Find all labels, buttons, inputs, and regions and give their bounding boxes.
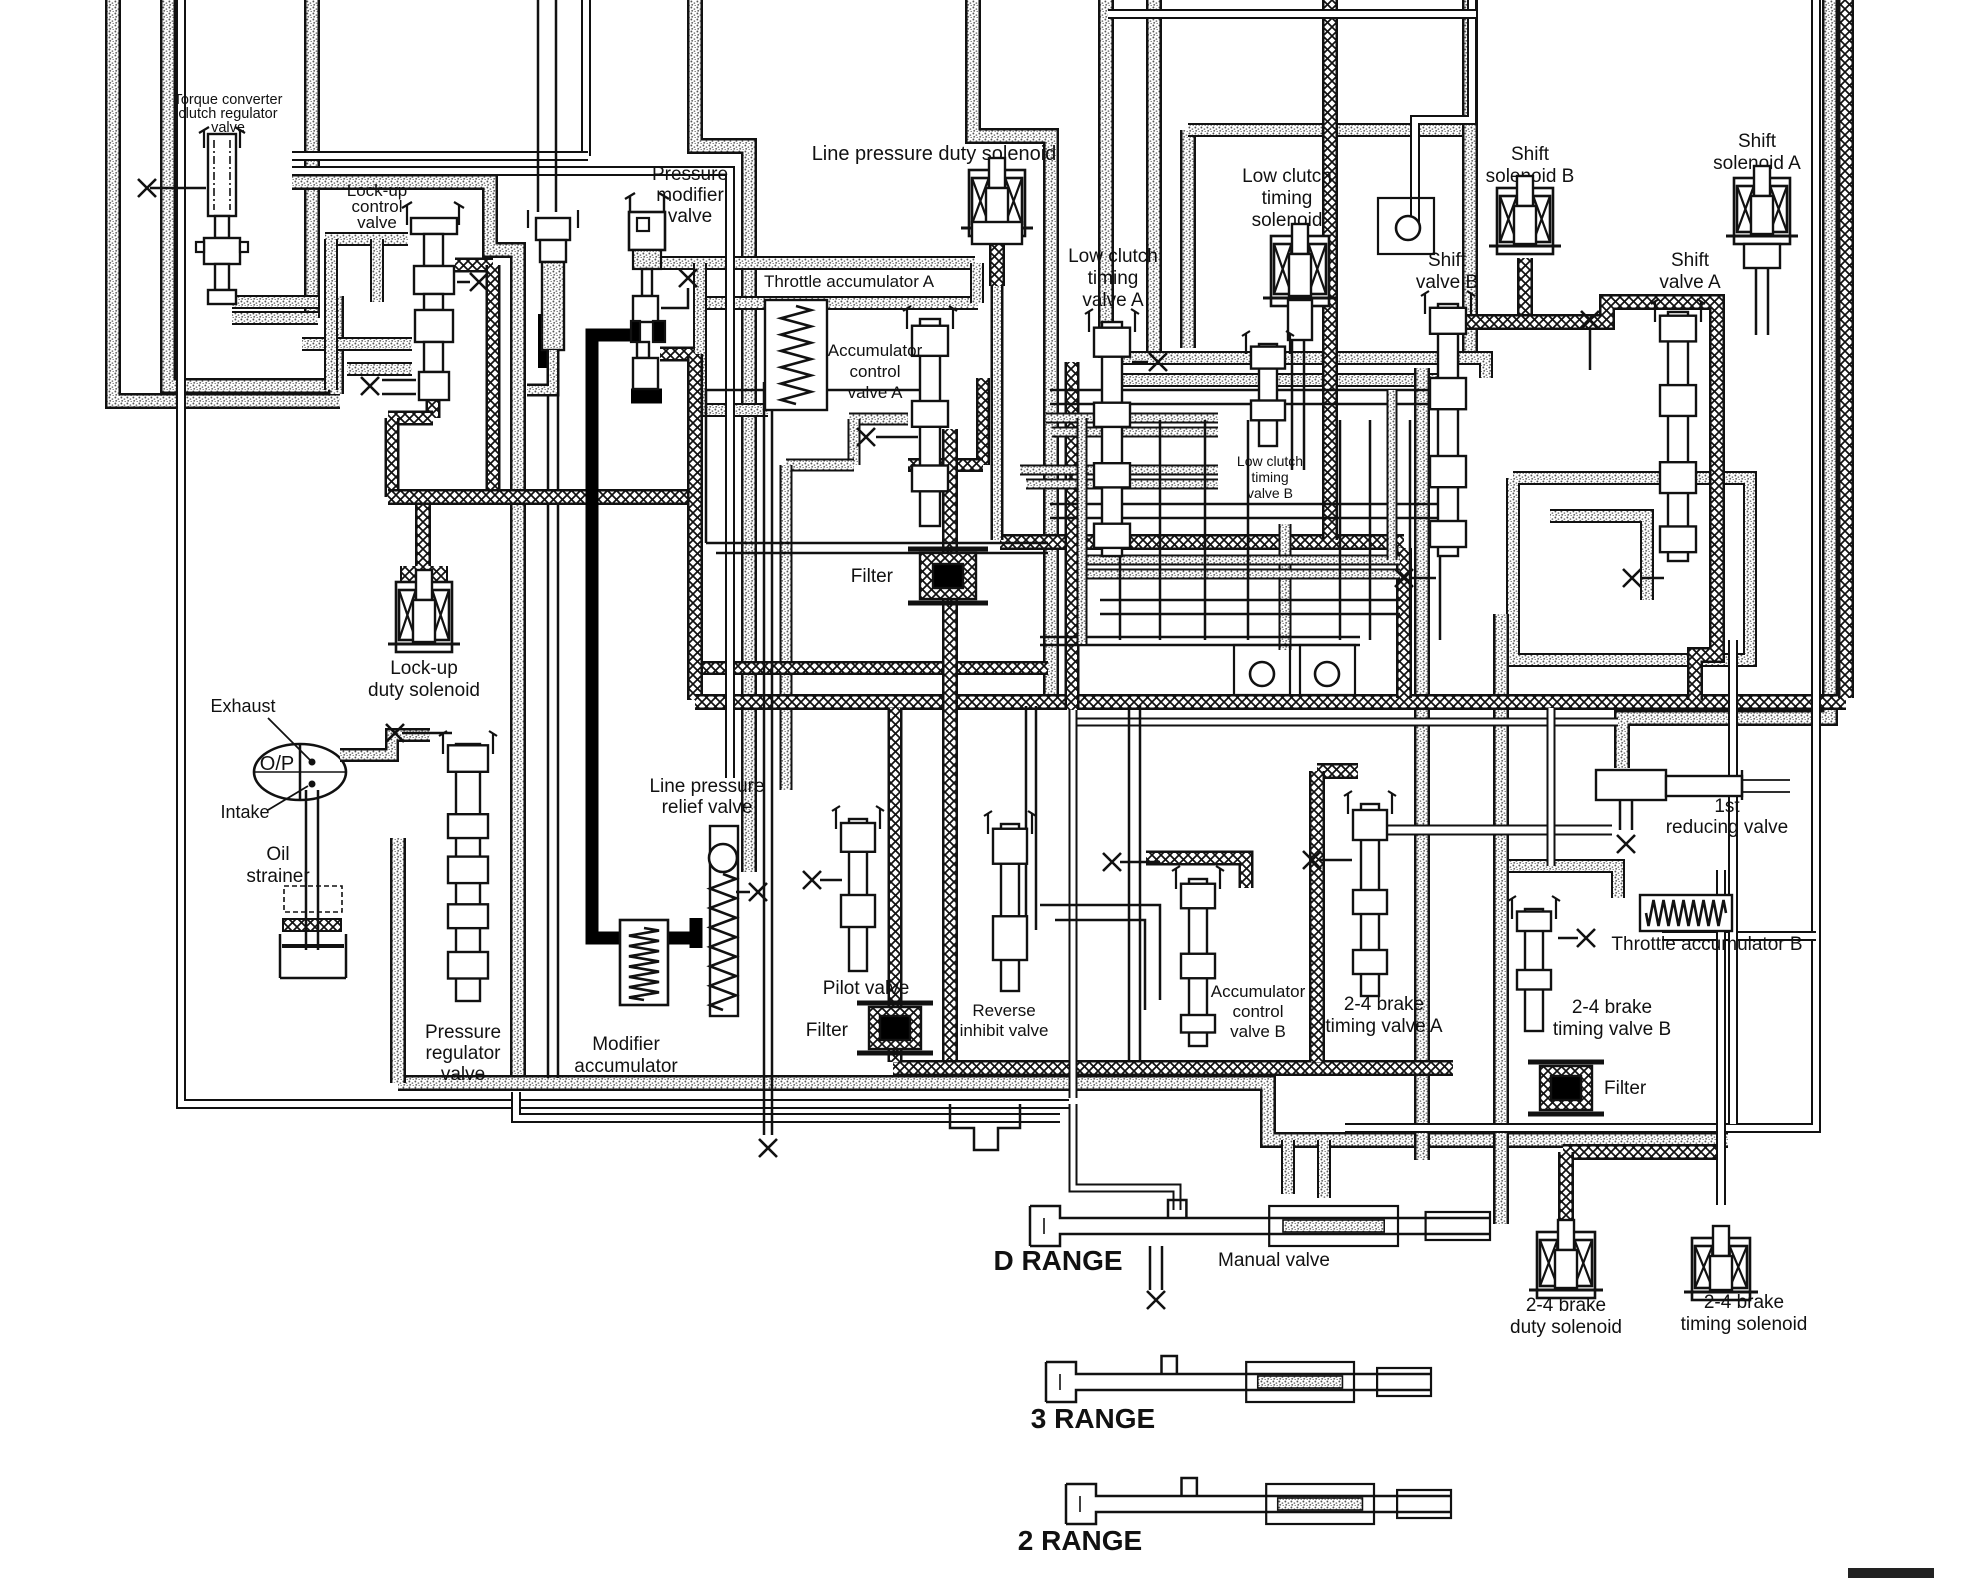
svg-text:control: control bbox=[849, 362, 900, 381]
svg-text:accumulator: accumulator bbox=[574, 1056, 678, 1077]
wire: accA outlet stair bbox=[786, 419, 908, 465]
wire: lock-up stem crosshatch bbox=[388, 400, 433, 497]
valve: reverse inhibit valve bbox=[960, 811, 1049, 1040]
wire: brake duty feed crosshatch bbox=[1563, 1152, 1722, 1224]
filter: upper filter bbox=[851, 549, 988, 603]
svg-text:D RANGE: D RANGE bbox=[993, 1245, 1122, 1276]
wire: lockup cluster stair 3 bbox=[347, 362, 412, 376]
wire: mid sp bus upper bbox=[1106, 358, 1486, 378]
svg-text:relief valve: relief valve bbox=[662, 797, 753, 818]
filter: middle filter bbox=[806, 1003, 933, 1053]
wire: crosshatch right riser bbox=[1838, 0, 1854, 698]
wire: manual valve riser 1 bbox=[1281, 1140, 1295, 1194]
svg-text:valve B: valve B bbox=[1416, 272, 1478, 293]
svg-text:Filter: Filter bbox=[806, 1020, 849, 1041]
solenoid: 2-4 brake timing solenoid bbox=[1681, 1226, 1808, 1335]
svg-text:solenoid: solenoid bbox=[1252, 210, 1323, 231]
svg-text:Low clutch: Low clutch bbox=[1237, 453, 1303, 469]
svg-text:Shift: Shift bbox=[1428, 250, 1467, 271]
watermark bbox=[1848, 1568, 1934, 1578]
svg-text:Low clutch: Low clutch bbox=[1068, 246, 1158, 267]
valve: shift valve B bbox=[1395, 250, 1478, 587]
wire: crosshatch bus y497 bbox=[388, 489, 695, 505]
solenoid: shift solenoid A bbox=[1713, 131, 1801, 335]
wire: shift solenoid B stem bbox=[1517, 258, 1533, 322]
svg-text:3 RANGE: 3 RANGE bbox=[1031, 1403, 1155, 1434]
svg-text:valve B: valve B bbox=[1230, 1022, 1286, 1041]
valve: 2-4 brake timing valve A bbox=[1303, 791, 1443, 1037]
wire: lockup feed vert bbox=[370, 239, 384, 302]
svg-text:Accumulator: Accumulator bbox=[1211, 982, 1306, 1001]
wire: throttle riser bbox=[695, 0, 749, 872]
wire: duty solenoid drop crosshatch bbox=[415, 497, 431, 566]
filter: lower right filter bbox=[1528, 1062, 1647, 1114]
svg-text:Filter: Filter bbox=[851, 566, 894, 587]
svg-text:Pressure: Pressure bbox=[425, 1022, 501, 1043]
wire: top horizontal lower bbox=[292, 171, 730, 778]
wire: below-bus thin link bbox=[1075, 718, 1618, 727]
wire: shift A bottom link bbox=[1662, 931, 1816, 941]
svg-text:valve: valve bbox=[668, 206, 712, 227]
svg-text:Exhaust: Exhaust bbox=[210, 696, 275, 716]
svg-text:timing: timing bbox=[1262, 188, 1313, 209]
wire: filter elbow crosshatch bbox=[888, 708, 903, 1062]
wire: black block at accumulator bbox=[690, 918, 703, 948]
svg-text:1st: 1st bbox=[1714, 796, 1740, 817]
svg-text:valve: valve bbox=[357, 213, 397, 232]
valve: manual valve 2 range bbox=[1018, 1478, 1451, 1556]
wire: shift valve B top loop bbox=[1415, 0, 1472, 222]
accumulator: throttle accumulator A bbox=[764, 272, 935, 410]
wire: filter crosshatch top bbox=[908, 378, 983, 465]
wire: throttle A link bbox=[970, 263, 984, 303]
wire: lockup cluster stair 2 bbox=[302, 337, 412, 351]
wire: throttle A left loop bbox=[700, 263, 768, 410]
wire: low clutch solenoid channel bbox=[1322, 0, 1338, 540]
wire: reducing valve left link bbox=[1388, 825, 1612, 836]
valve: torque converter clutch regulator valve bbox=[138, 92, 283, 304]
valve: low clutch timing valve A bbox=[1068, 246, 1167, 556]
wire: crosshatch drop x1404 bbox=[1396, 548, 1412, 698]
svg-text:timing valve A: timing valve A bbox=[1325, 1016, 1443, 1037]
valve: lock-up control valve bbox=[347, 181, 488, 400]
wire: lockup cluster vert bbox=[324, 239, 338, 390]
svg-text:duty solenoid: duty solenoid bbox=[1510, 1317, 1622, 1338]
valve: manual valve 3 range bbox=[1031, 1356, 1431, 1434]
svg-text:Throttle accumulator A: Throttle accumulator A bbox=[764, 272, 935, 291]
wire: mid sp bus lower bbox=[1114, 373, 1448, 387]
svg-text:2 RANGE: 2 RANGE bbox=[1018, 1525, 1142, 1556]
svg-text:Shift: Shift bbox=[1671, 250, 1710, 271]
wire: lower mesh links bbox=[706, 382, 1160, 1157]
wire: throttle B loop bbox=[1502, 866, 1618, 898]
svg-text:timing valve B: timing valve B bbox=[1553, 1019, 1671, 1040]
wire: left supply line inner bbox=[168, 0, 336, 386]
wire: shift inter loop bbox=[1513, 478, 1750, 660]
solenoid: line pressure duty solenoid bbox=[812, 143, 1057, 244]
wire: crosshatch vert x695 bbox=[660, 354, 695, 700]
wire: top right channel 2 bbox=[1146, 0, 1162, 352]
svg-text:Throttle accumulator B: Throttle accumulator B bbox=[1611, 934, 1802, 955]
wire: 2-4 valve A crosshatch bbox=[1317, 771, 1358, 1062]
wire: top right horizontal bbox=[1108, 9, 1476, 19]
svg-text:valve: valve bbox=[441, 1064, 485, 1085]
wire: throttle A bus lower bbox=[700, 296, 978, 310]
strainer: oil strainer bbox=[246, 790, 346, 978]
wire: crosshatch vert x950 bbox=[942, 429, 958, 1062]
wire: throttle B left feed bbox=[1547, 708, 1556, 866]
svg-text:Intake: Intake bbox=[220, 802, 269, 822]
svg-text:Low clutch: Low clutch bbox=[1242, 166, 1332, 187]
wire: top right channel 1 bbox=[1098, 0, 1114, 358]
accumulator: throttle accumulator B bbox=[1611, 895, 1802, 955]
svg-text:strainer: strainer bbox=[246, 866, 310, 887]
valve: manual valve D range bbox=[993, 1200, 1490, 1309]
pump: oil pump O/P bbox=[210, 696, 346, 822]
svg-text:2-4 brake: 2-4 brake bbox=[1526, 1295, 1606, 1316]
valve: accumulator control valve A bbox=[828, 306, 957, 526]
svg-text:2-4 brake: 2-4 brake bbox=[1572, 997, 1652, 1018]
valve: pressure regulator valve bbox=[386, 724, 501, 1085]
accumulator: modifier accumulator bbox=[574, 920, 678, 1077]
svg-text:O/P: O/P bbox=[260, 753, 294, 775]
wire: right thin pair bbox=[1345, 0, 1816, 1128]
svg-text:Shift: Shift bbox=[1511, 144, 1550, 165]
wire: top right loop top bbox=[1188, 123, 1470, 137]
svg-text:reducing valve: reducing valve bbox=[1666, 817, 1789, 838]
valve: pressure modifier valve bbox=[625, 164, 728, 389]
wire: line duty solenoid stem bbox=[989, 240, 1005, 540]
wire: pilot feed vertical bbox=[780, 465, 793, 790]
wire: duty solenoid channel bbox=[973, 0, 1051, 694]
wire: riser to torque valve bbox=[328, 296, 344, 394]
svg-text:Pressure: Pressure bbox=[652, 164, 728, 185]
svg-text:duty solenoid: duty solenoid bbox=[368, 680, 480, 701]
wire: throttle A bus bbox=[653, 256, 975, 270]
svg-text:timing: timing bbox=[1088, 268, 1139, 289]
svg-text:modifier: modifier bbox=[656, 185, 724, 206]
wire: crosshatch link y668 bbox=[700, 661, 1048, 675]
wire: bus drop pair x1073 bbox=[1069, 710, 1078, 1098]
svg-text:Manual valve: Manual valve bbox=[1218, 1250, 1330, 1271]
svg-text:regulator: regulator bbox=[426, 1043, 502, 1064]
wire: pump outlet bbox=[340, 735, 430, 755]
wire: top frame drop bbox=[581, 0, 591, 156]
wire: torque to lockup link A bbox=[232, 295, 318, 309]
wire: outer frame left-bottom bbox=[181, 0, 1069, 1104]
wire: lock-up loop top bbox=[292, 182, 518, 1083]
wire: top right channel 4 bbox=[1462, 0, 1478, 352]
svg-text:Line pressure: Line pressure bbox=[649, 776, 764, 797]
check ball upper bbox=[1378, 198, 1434, 254]
wire: shift valve feed crosshatch bbox=[1448, 302, 1717, 700]
svg-text:Modifier: Modifier bbox=[592, 1034, 660, 1055]
wire: speckled drop x312 bbox=[304, 0, 320, 318]
wire: right mid pair bbox=[1728, 640, 1738, 1124]
wire: vertical channel x1501 bbox=[1493, 614, 1509, 1224]
svg-text:timing: timing bbox=[1251, 469, 1288, 485]
wire: manual valve riser 2 bbox=[1317, 1140, 1331, 1198]
wire: top right channel 3 bbox=[1180, 130, 1196, 348]
valve: 2-4 brake timing valve B bbox=[1508, 896, 1671, 1040]
svg-text:inhibit valve: inhibit valve bbox=[960, 1021, 1049, 1040]
wire: main crosshatch bus y702 bbox=[695, 694, 1846, 710]
svg-text:timing solenoid: timing solenoid bbox=[1681, 1314, 1808, 1335]
wire: center mesh lattice bbox=[1020, 390, 1440, 645]
svg-text:valve A: valve A bbox=[1082, 290, 1144, 311]
wire: black stub near modifier bbox=[538, 314, 552, 368]
wire: left supply line outer bbox=[113, 0, 340, 401]
svg-text:2-4 brake: 2-4 brake bbox=[1704, 1292, 1784, 1313]
svg-text:2-4 brake: 2-4 brake bbox=[1344, 994, 1424, 1015]
valve: line pressure relief valve bbox=[649, 776, 767, 1016]
svg-text:Pilot valve: Pilot valve bbox=[823, 978, 910, 999]
wire: black modifier line bbox=[592, 335, 700, 938]
svg-text:valve B: valve B bbox=[1247, 485, 1293, 501]
svg-text:valve A: valve A bbox=[1659, 272, 1721, 293]
valve: converter relief check bbox=[527, 0, 578, 390]
wire: lockup cluster stair 1 bbox=[325, 232, 408, 246]
valve: low clutch timing valve B bbox=[1237, 331, 1303, 501]
wire: torque to lockup link B bbox=[232, 311, 318, 325]
solenoid: lock-up duty solenoid bbox=[368, 566, 480, 701]
solenoid: shift solenoid B bbox=[1486, 144, 1575, 254]
valve: shift valve A bbox=[1581, 250, 1721, 587]
check balls bbox=[1234, 645, 1355, 695]
wire: crosshatch col x1072 bbox=[1065, 362, 1080, 710]
wire: inner frame bottom bbox=[516, 1092, 1060, 1118]
valve: accumulator control valve B bbox=[1103, 853, 1306, 1046]
solenoid: low clutch timing solenoid bbox=[1242, 166, 1337, 470]
svg-text:Reverse: Reverse bbox=[972, 1001, 1035, 1020]
wire: right edge speckled bbox=[1622, 0, 1830, 768]
wire: crosshatch bottom bus y1068 bbox=[893, 1060, 1453, 1076]
wire: main bottom speckled bus bbox=[398, 1083, 1728, 1140]
wire: inline component bbox=[950, 1104, 1020, 1150]
wire: crosshatch mid bus y542 bbox=[1000, 534, 1404, 550]
valve: 1st reducing valve bbox=[1596, 770, 1790, 853]
svg-text:valve A: valve A bbox=[848, 383, 903, 402]
svg-text:Accumulator: Accumulator bbox=[828, 341, 923, 360]
valve: pilot valve bbox=[803, 806, 909, 999]
svg-text:Lock-up: Lock-up bbox=[390, 658, 458, 679]
svg-text:Filter: Filter bbox=[1604, 1078, 1647, 1099]
wire: top horizontal upper bbox=[292, 151, 588, 161]
wire: shift inter loop 2 bbox=[1550, 516, 1647, 600]
wire: regulator right pair bbox=[548, 395, 558, 1078]
wire: valve B outlet sp bbox=[1279, 524, 1292, 650]
wire: accB crosshatch top bbox=[1146, 858, 1246, 888]
wire: regulator left speckled bbox=[390, 838, 406, 1083]
svg-text:Oil: Oil bbox=[266, 844, 289, 865]
solenoid: 2-4 brake duty solenoid bbox=[1510, 1220, 1622, 1338]
svg-text:Line pressure duty solenoid: Line pressure duty solenoid bbox=[812, 143, 1057, 165]
wire: throttle B feed pair bbox=[1716, 870, 1726, 1205]
svg-text:control: control bbox=[1232, 1002, 1283, 1021]
wire: lock-up right crosshatch bbox=[455, 265, 493, 497]
wire: accumulator B vertical bbox=[1414, 368, 1430, 1160]
svg-text:Shift: Shift bbox=[1738, 131, 1777, 152]
wire: manual valve staircase bbox=[1073, 1104, 1177, 1210]
